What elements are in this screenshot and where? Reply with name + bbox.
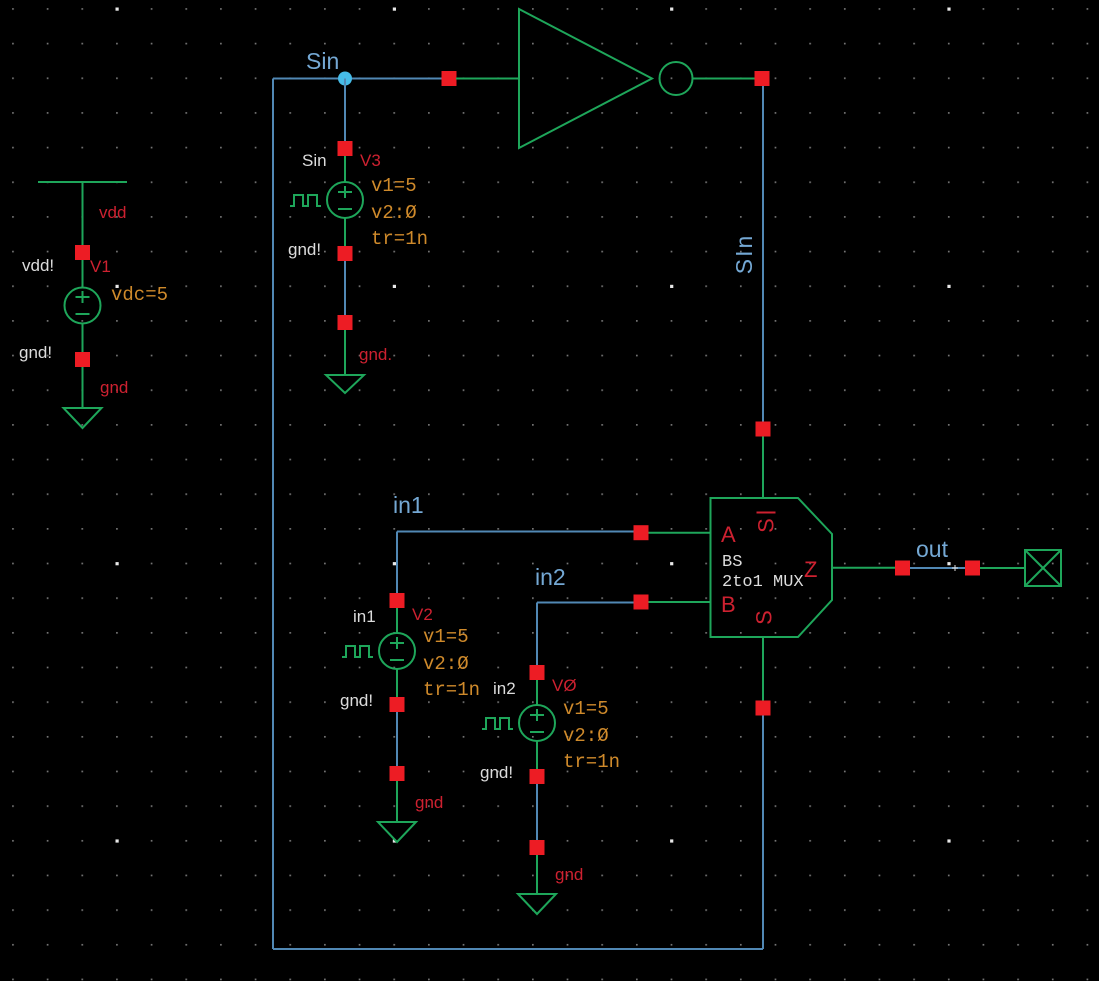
svg-text:gnd: gnd <box>415 793 443 812</box>
wire in1 horizontal <box>397 531 636 533</box>
pin square mux Sbar <box>756 422 771 437</box>
svg-text:gnd!: gnd! <box>340 691 373 710</box>
svg-text:gnd!: gnd! <box>19 343 52 362</box>
power symbol vdd bar <box>38 182 127 246</box>
svg-text:SIn: SIn <box>731 234 757 275</box>
inverter output pin square <box>755 71 770 86</box>
pin square gnd (V0) <box>530 840 545 855</box>
pin square V1 minus <box>75 352 90 367</box>
svg-text:in1: in1 <box>353 607 376 626</box>
svg-text:Sin: Sin <box>302 151 327 170</box>
ground symbol (V3) <box>326 330 364 393</box>
svg-text:v1=5: v1=5 <box>423 626 469 648</box>
voltage source V2 <box>342 608 415 697</box>
svg-text:gnd!: gnd! <box>480 763 513 782</box>
pin square mux B <box>634 595 649 610</box>
svg-text:S: S <box>752 610 777 625</box>
wire out <box>910 567 965 569</box>
svg-text:v2:Ø: v2:Ø <box>563 725 609 747</box>
junction dot Sin <box>338 72 352 86</box>
voltage source V1 <box>65 260 101 352</box>
wire SIn vertical <box>762 86 764 422</box>
pin label Sbar (rotated) <box>757 512 776 514</box>
svg-text:v1=5: v1=5 <box>371 175 417 197</box>
pin square gnd (V3) <box>338 315 353 330</box>
wire loop bottom horizontal <box>273 948 763 950</box>
pin square mux S <box>756 701 771 716</box>
svg-text:vdc=5: vdc=5 <box>111 284 168 306</box>
pin square V2 plus <box>390 593 405 608</box>
op-amp style inverter symbol <box>456 9 755 148</box>
inverter input pin square <box>442 71 457 86</box>
svg-text:in2: in2 <box>493 679 516 698</box>
pin square V1 plus <box>75 245 90 260</box>
svg-text:gnd!: gnd! <box>288 240 321 259</box>
pin square V0 plus <box>530 665 545 680</box>
svg-text:V3: V3 <box>360 151 381 170</box>
pin square Z out <box>895 561 910 576</box>
svg-text:BS: BS <box>722 553 742 572</box>
svg-text:S: S <box>754 518 779 533</box>
ground symbol (V2) <box>378 781 416 842</box>
wire V0 to gnd <box>536 784 538 840</box>
svg-text:2to1 MUX: 2to1 MUX <box>722 573 804 592</box>
svg-text:tr=1n: tr=1n <box>423 679 480 701</box>
svg-text:v2:Ø: v2:Ø <box>423 653 469 675</box>
ground symbol (V1) <box>64 367 102 428</box>
svg-text:v2:Ø: v2:Ø <box>371 202 417 224</box>
svg-text:tr=1n: tr=1n <box>563 751 620 773</box>
wire in2 vertical <box>536 603 538 667</box>
wire in1 vertical <box>396 532 398 595</box>
svg-text:v1=5: v1=5 <box>563 698 609 720</box>
output pin symbol out <box>980 550 1061 586</box>
pin square V3 minus <box>338 246 353 261</box>
svg-text:V1: V1 <box>90 257 111 276</box>
wire V2 to gnd <box>396 712 398 766</box>
svg-text:out: out <box>916 536 949 562</box>
mux U1 body <box>648 436 899 701</box>
svg-text:vdd: vdd <box>99 203 126 222</box>
svg-text:VØ: VØ <box>552 676 577 695</box>
svg-text:tr=1n: tr=1n <box>371 228 428 250</box>
wire V3 to gnd <box>344 261 346 315</box>
svg-text:Z: Z <box>804 557 817 582</box>
svg-text:gnd: gnd <box>555 865 583 884</box>
svg-text:vdd!: vdd! <box>22 256 54 275</box>
voltage source V3 <box>290 156 363 246</box>
wire loop left vertical <box>272 79 274 950</box>
svg-text:in2: in2 <box>535 564 566 590</box>
pin square V3 plus <box>338 141 353 156</box>
svg-text:Sin: Sin <box>306 48 339 74</box>
ground symbol (V0) <box>518 855 556 914</box>
pin square mux A <box>634 525 649 540</box>
svg-text:V2: V2 <box>412 605 433 624</box>
pin square V2 minus <box>390 697 405 712</box>
svg-text:gnd.: gnd. <box>359 345 392 364</box>
pin square out pin <box>965 561 980 576</box>
wire loop right vertical to S pin <box>762 713 764 949</box>
svg-text:in1: in1 <box>393 492 424 518</box>
wire Sin down to V3 <box>344 79 346 144</box>
wire in2 horizontal <box>537 602 636 604</box>
label origin tick <box>952 565 958 571</box>
pin square gnd (V2) <box>390 766 405 781</box>
svg-text:gnd: gnd <box>100 378 128 397</box>
svg-text:B: B <box>721 592 736 617</box>
pin square V0 minus <box>530 769 545 784</box>
wire Sin horizontal <box>273 78 444 80</box>
svg-text:A: A <box>721 522 736 547</box>
voltage source V0 <box>482 680 555 769</box>
